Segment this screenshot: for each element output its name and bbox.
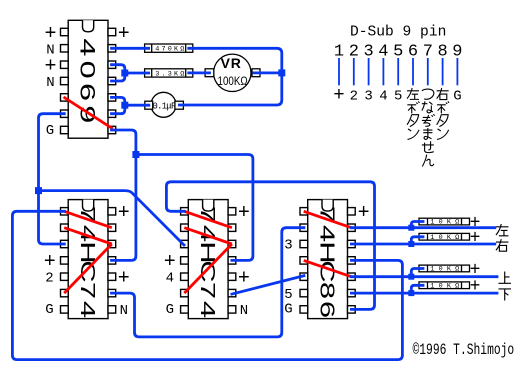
svg-text:©1996 T.Shimojo: ©1996 T.Shimojo bbox=[413, 342, 515, 359]
svg-text:100KΩ: 100KΩ bbox=[218, 75, 248, 88]
wire 3.3K to VR bbox=[189, 72, 210, 75]
svg-text:+: + bbox=[470, 229, 481, 249]
svg-text:5: 5 bbox=[394, 88, 402, 104]
IC U2 pin labels bbox=[44, 202, 130, 319]
node label down (shita) bbox=[498, 289, 510, 301]
svg-text:8: 8 bbox=[316, 282, 339, 299]
junction bracket2 bbox=[121, 102, 128, 109]
IC U4 label 74HC86 bbox=[316, 206, 339, 318]
svg-text:4: 4 bbox=[379, 88, 387, 104]
IC U3 notch bbox=[203, 200, 214, 212]
wire 4069 pin6 down rail to U2 pin3 bbox=[39, 114, 65, 244]
svg-text:6: 6 bbox=[76, 83, 100, 101]
hook resistor RB bbox=[411, 237, 423, 244]
IC U4 pins left bbox=[300, 208, 308, 215]
junction hook B bbox=[408, 241, 414, 247]
wire bracket1 to 3.3K bbox=[125, 72, 149, 75]
wire 4069 pin13 to 470K bbox=[112, 47, 149, 50]
svg-text:2: 2 bbox=[45, 270, 53, 286]
junction VR loop bbox=[278, 69, 285, 76]
junction hook C bbox=[408, 274, 414, 280]
svg-text:3: 3 bbox=[284, 237, 292, 253]
IC U4 pin labels bbox=[284, 202, 369, 318]
svg-text:3: 3 bbox=[364, 88, 372, 104]
wire bracket 4069 pins 12,11 bbox=[112, 65, 125, 81]
IC U1 pins right bbox=[108, 28, 116, 35]
svg-text:7: 7 bbox=[76, 282, 99, 299]
IC U3 pins left bbox=[181, 208, 189, 215]
IC U3 label 74HC74 bbox=[196, 206, 219, 318]
IC U1 red strap bbox=[64, 97, 113, 129]
IC U1 pin labels bbox=[44, 23, 129, 139]
wire VR right to loop bbox=[254, 72, 282, 75]
svg-text:7: 7 bbox=[196, 282, 219, 299]
svg-text:+: + bbox=[118, 267, 130, 290]
svg-text:4: 4 bbox=[166, 270, 174, 286]
svg-text:470KΩ: 470KΩ bbox=[155, 46, 186, 54]
svg-text:VR: VR bbox=[221, 55, 242, 71]
junction bracket1 bbox=[121, 70, 128, 77]
hook resistor RD bbox=[411, 285, 423, 293]
IC U3 body bbox=[188, 200, 228, 319]
wire row D 74HC86 pin9 to down label bbox=[351, 292, 497, 295]
wire 4069 pin8 down to U2 pin11 bbox=[112, 130, 136, 260]
D-Sub pin8 label migi botan (vertical) bbox=[437, 88, 449, 100]
wire U2 pin9 to 74HC86 pin2 bbox=[112, 228, 304, 337]
node label up (ue) bbox=[498, 271, 510, 283]
D-Sub connector lines bbox=[339, 58, 457, 85]
svg-text:G: G bbox=[453, 88, 461, 104]
IC U2 label 74HC74 bbox=[76, 206, 99, 318]
svg-text:4: 4 bbox=[196, 301, 219, 318]
svg-text:+: + bbox=[333, 84, 344, 106]
hook resistor RA bbox=[411, 222, 423, 228]
IC U2 notch bbox=[83, 200, 94, 212]
IC U2 red straps bbox=[64, 211, 112, 293]
node label left (hidari) bbox=[496, 224, 508, 236]
junction left rail bbox=[35, 187, 42, 194]
IC U1 notch bbox=[83, 20, 94, 32]
svg-text:10KΩ: 10KΩ bbox=[430, 266, 463, 274]
IC U1 label 4069 bbox=[76, 38, 100, 123]
IC U1 body bbox=[68, 20, 108, 138]
junction hook D bbox=[408, 290, 414, 296]
IC U2 pins left bbox=[61, 208, 69, 215]
svg-text:N: N bbox=[120, 303, 128, 319]
IC U2 pins right bbox=[108, 208, 116, 215]
svg-text:6: 6 bbox=[316, 301, 339, 318]
svg-text:G: G bbox=[45, 302, 53, 318]
wire junction diagonal to U3 pin3 bbox=[39, 191, 185, 245]
svg-text:4: 4 bbox=[316, 225, 339, 242]
wire row C 74HC86 pin10 to up label bbox=[351, 275, 497, 278]
IC U4 body bbox=[308, 200, 348, 319]
hook resistor RC bbox=[411, 269, 423, 277]
svg-text:+: + bbox=[358, 202, 370, 225]
wire U3 pin9 diagonal to 74HC86 pin5 bbox=[232, 276, 304, 294]
wire U2 pin1 around bottom to 74HC86 pin11 bbox=[12, 211, 402, 359]
wire row B 74HC86 pin12 to right label bbox=[351, 243, 494, 246]
svg-text:4: 4 bbox=[76, 301, 99, 318]
wire row A 74HC86 pin13 to left label bbox=[351, 226, 494, 229]
D-Sub pin7 label tsunagimasen (vertical) bbox=[422, 89, 434, 99]
IC U4 notch bbox=[322, 200, 333, 212]
svg-text:D-Sub 9 pin: D-Sub 9 pin bbox=[350, 24, 446, 40]
svg-text:2: 2 bbox=[350, 88, 358, 104]
svg-text:0: 0 bbox=[76, 61, 100, 79]
junction hook A bbox=[408, 225, 414, 231]
svg-text:N: N bbox=[46, 75, 54, 91]
svg-text:10KΩ: 10KΩ bbox=[430, 282, 463, 290]
wire bracket 4069 pins 10,9 bbox=[112, 97, 125, 113]
node label right (migi) bbox=[496, 239, 508, 251]
wire 470K right loop down to cap right bbox=[179, 48, 281, 105]
IC U4 red straps bbox=[304, 211, 352, 276]
svg-text:0.1μF: 0.1μF bbox=[153, 101, 176, 111]
IC U3 pin labels bbox=[164, 202, 250, 319]
IC U4 pins right bbox=[348, 208, 356, 215]
D-Sub signal labels bbox=[333, 84, 461, 106]
IC U3 red straps bbox=[184, 211, 232, 293]
D-Sub pin6 label hidari botan (vertical) bbox=[407, 88, 419, 99]
svg-text:10KΩ: 10KΩ bbox=[430, 234, 463, 242]
svg-text:5: 5 bbox=[284, 287, 292, 303]
svg-text:C: C bbox=[196, 260, 219, 282]
svg-text:4: 4 bbox=[76, 38, 100, 56]
svg-text:C: C bbox=[76, 260, 99, 282]
svg-text:3.3KΩ: 3.3KΩ bbox=[155, 70, 186, 78]
IC U2 body bbox=[68, 200, 108, 319]
svg-text:+: + bbox=[118, 23, 130, 46]
IC U3 pins right bbox=[228, 208, 236, 215]
svg-text:G: G bbox=[46, 123, 54, 139]
wire bracket2 to cap bbox=[125, 104, 149, 107]
svg-text:+: + bbox=[118, 202, 130, 225]
D-Sub pin numbers bbox=[334, 43, 463, 62]
svg-text:+: + bbox=[238, 202, 250, 225]
svg-text:N: N bbox=[240, 303, 248, 319]
svg-text:+: + bbox=[238, 267, 250, 290]
IC U1 pins left bbox=[61, 28, 69, 35]
svg-text:G: G bbox=[284, 302, 292, 318]
wire junction over to U3 pin11 bbox=[136, 155, 253, 261]
wire U3 pin1 over top to 74HC86 pin8 bbox=[166, 182, 374, 310]
svg-text:10KΩ: 10KΩ bbox=[430, 219, 463, 227]
junction pin8 rail bbox=[132, 151, 139, 158]
svg-text:G: G bbox=[166, 302, 174, 318]
